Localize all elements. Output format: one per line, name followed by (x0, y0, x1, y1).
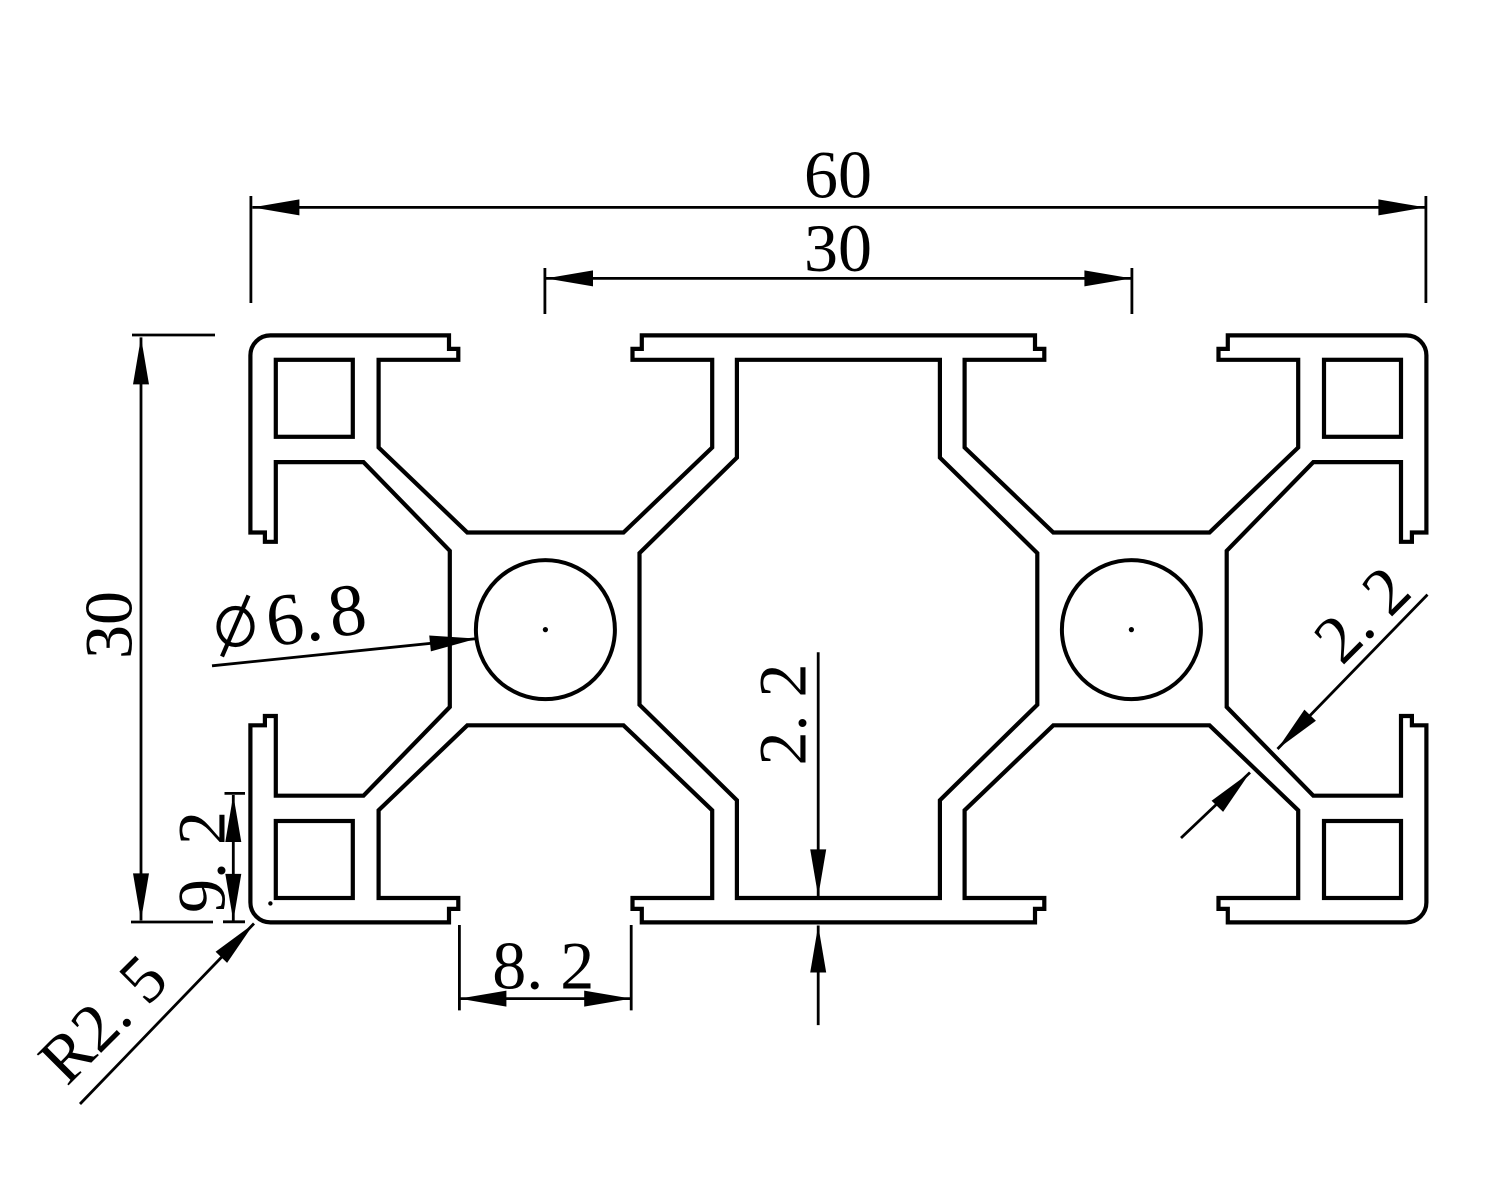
arrows 30 top (546, 270, 593, 286)
phi symbol (219, 596, 253, 657)
svg-text:60: 60 (804, 137, 872, 213)
dim 30 left ticks (132, 334, 215, 337)
central octagonal chamber (640, 360, 1038, 898)
dim 30 top line (546, 277, 1131, 280)
arrows 2.2 center (810, 849, 826, 896)
svg-text:30: 30 (71, 591, 147, 659)
dim 60 extension lines (249, 196, 252, 303)
corner cavity square bottom-right (1324, 821, 1401, 898)
dim 8.2 line (459, 997, 631, 1000)
text phi 6.8 (260, 568, 371, 664)
dim 2.2 center lines (817, 652, 820, 896)
svg-text:9. 2: 9. 2 (164, 811, 240, 913)
arrows 2.2 right (1272, 710, 1316, 755)
dim phi6.8 leader (212, 639, 477, 666)
arrow R2.5 (216, 918, 260, 963)
svg-text:30: 30 (804, 210, 872, 286)
dim 60 line (252, 206, 1425, 209)
corner arc center dot (268, 901, 272, 905)
corner cavity square top-right (1324, 360, 1401, 437)
arrows 60 (252, 199, 299, 215)
left bore circle (476, 560, 615, 699)
right bore circle (1062, 560, 1201, 699)
dim 9.2 ticks (225, 792, 246, 795)
dim 8.2 extension lines (458, 925, 461, 1010)
dim 30 left line (140, 337, 143, 920)
left bore center dot (543, 627, 548, 632)
corner cavity square top-left (276, 360, 353, 437)
dim 2.2 right leaders (1278, 595, 1428, 749)
arrow phi6.8 (429, 631, 477, 652)
arrows 30 left (133, 337, 149, 384)
right bore center dot (1129, 627, 1134, 632)
dim 9.2 line (232, 795, 235, 921)
profile outer contour (250, 335, 1426, 922)
arrows 9.2 (225, 795, 241, 842)
arrows 8.2 (459, 991, 506, 1007)
dim 30 top extension line (544, 268, 547, 314)
svg-text:2. 2: 2. 2 (745, 664, 821, 766)
svg-text:8. 2: 8. 2 (492, 928, 594, 1004)
corner cavity square bottom-left (276, 821, 353, 898)
dim R2.5 leader (80, 924, 254, 1105)
